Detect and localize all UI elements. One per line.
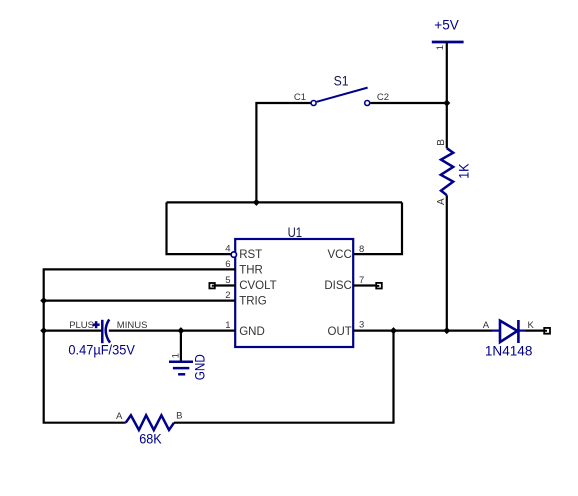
- wire GND pin to cap: [109, 330, 235, 332]
- svg-text:68K: 68K: [139, 432, 162, 447]
- svg-text:1K: 1K: [456, 163, 472, 179]
- wire diode to K terminal: [518, 330, 527, 332]
- svg-text:S1: S1: [334, 73, 349, 88]
- diode D 1N4148 triangle: [500, 321, 517, 343]
- svg-text:PLUS: PLUS: [69, 320, 94, 331]
- svg-text:TRIG: TRIG: [239, 296, 267, 308]
- wire 1K bottom to OUT rail: [446, 195, 448, 330]
- pin 7 terminal square: [376, 283, 382, 289]
- resistor R 68K: [126, 415, 174, 430]
- svg-text:4: 4: [225, 244, 230, 255]
- svg-text:OUT: OUT: [328, 326, 352, 338]
- wire top loop left leg to RST: [167, 202, 232, 254]
- pin 5 CVOLT stub: [212, 284, 235, 286]
- wire switch C2 to rail: [370, 102, 446, 104]
- svg-text:+5V: +5V: [434, 18, 459, 33]
- svg-text:U1: U1: [288, 224, 303, 240]
- svg-text:1N4148: 1N4148: [485, 343, 533, 359]
- resistor R 1K: [441, 148, 453, 195]
- svg-text:K: K: [528, 320, 535, 331]
- ground bar 3: [178, 373, 185, 376]
- svg-text:THR: THR: [239, 265, 263, 277]
- wire down to ground: [180, 331, 182, 362]
- node junction OUT/1K rail: [443, 327, 450, 334]
- svg-text:1: 1: [171, 353, 182, 358]
- svg-text:A: A: [483, 320, 490, 331]
- capacitor C right curved plate: [106, 319, 110, 342]
- node junction OUT/68K leg: [390, 327, 397, 334]
- capacitor plus sign: [93, 323, 100, 326]
- wire diode cathode stub to K terminal: [526, 330, 547, 332]
- K terminal square: [544, 328, 550, 334]
- svg-text:5: 5: [225, 275, 230, 286]
- pin 4 RST bubble: [231, 252, 236, 257]
- node junction top loop: [253, 199, 260, 206]
- svg-text:B: B: [176, 410, 182, 421]
- wire THR pin to left rail, down and to 68K (A side): [44, 269, 236, 422]
- wire +5V bar down to 1K resistor: [446, 42, 448, 148]
- switch terminal C1: [311, 101, 316, 106]
- svg-text:7: 7: [359, 275, 364, 286]
- node junction cap wire/left rail: [40, 327, 47, 334]
- diode anode stub: [491, 330, 500, 332]
- switch terminal C2: [365, 101, 370, 106]
- diode cathode bar: [517, 320, 520, 343]
- svg-text:3: 3: [359, 320, 364, 331]
- node junction TRIG/left rail: [40, 297, 47, 304]
- svg-text:MINUS: MINUS: [117, 320, 148, 331]
- ground bar 1: [169, 361, 193, 364]
- svg-text:C1: C1: [294, 92, 306, 103]
- svg-text:CVOLT: CVOLT: [239, 280, 277, 292]
- power +5V bar: [432, 41, 464, 44]
- wire OUT to diode: [353, 330, 492, 332]
- svg-text:2: 2: [225, 290, 230, 301]
- svg-text:C2: C2: [377, 92, 389, 103]
- svg-text:GND: GND: [191, 354, 207, 380]
- svg-text:DISC: DISC: [324, 280, 351, 292]
- svg-text:VCC: VCC: [328, 249, 352, 261]
- svg-text:1: 1: [435, 45, 446, 50]
- node junction gnd branch: [177, 327, 184, 334]
- svg-text:B: B: [436, 139, 447, 146]
- svg-text:RST: RST: [239, 249, 262, 261]
- wire switch C1 left and down to top loop: [256, 103, 310, 202]
- svg-text:A: A: [436, 198, 447, 205]
- svg-text:0.47µF/35V: 0.47µF/35V: [68, 343, 134, 358]
- wire 68K (B side) right and up to OUT: [174, 331, 394, 423]
- svg-text:8: 8: [359, 244, 364, 255]
- capacitor C left plate: [101, 320, 104, 343]
- pin 7 DISC stub: [353, 284, 379, 286]
- svg-text:A: A: [116, 411, 123, 422]
- wire left rail to cap: [44, 330, 103, 332]
- ground bar 2: [173, 367, 189, 370]
- svg-text:1: 1: [225, 320, 230, 331]
- svg-text:GND: GND: [239, 326, 265, 338]
- wire top loop right leg to VCC: [353, 202, 402, 254]
- IC U1 (555 timer) body: [235, 239, 353, 347]
- switch blade: [317, 88, 368, 102]
- pin 5 terminal square: [209, 283, 214, 288]
- wire top loop horizontal: [167, 201, 403, 203]
- node junction switch/1K rail: [443, 100, 450, 107]
- wire TRIG to left rail: [44, 300, 236, 302]
